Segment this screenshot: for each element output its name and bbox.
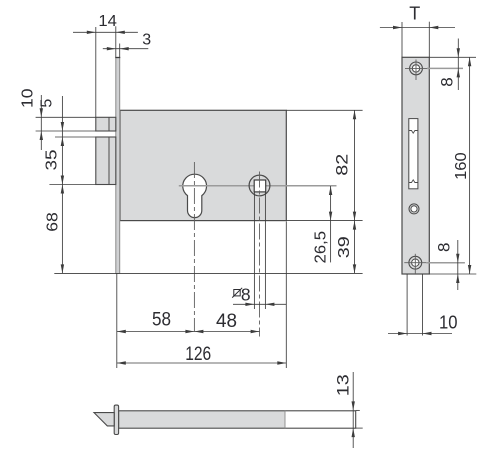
mounting tab upper [96, 117, 116, 131]
spindle square hole [254, 180, 266, 192]
plate top edge extension [429, 56, 476, 58]
svg-text:14: 14 [98, 13, 117, 30]
svg-text:58: 58 [152, 310, 171, 331]
extension line for 14 left [95, 27, 97, 117]
slot break line bottom [409, 180, 418, 183]
bottom dimension 126 [117, 362, 286, 364]
faceplate tab (side) [114, 405, 118, 434]
case width extension lines below plate [406, 274, 408, 336]
svg-text:39: 39 [336, 236, 353, 258]
top screw hole [410, 62, 423, 75]
faceplate plate [402, 57, 429, 274]
svg-text:126: 126 [185, 343, 211, 365]
bottom left extension line [116, 274, 118, 369]
holes horizontal centerline (grey) [179, 185, 337, 187]
svg-text:10: 10 [439, 311, 458, 332]
mounting tab lower [96, 137, 116, 185]
extension line for 3 right [119, 44, 121, 58]
square hole side extension lines [253, 192, 255, 309]
top hole centerline extension (grey) [427, 67, 463, 69]
svg-text:13: 13 [333, 374, 352, 396]
svg-text:8: 8 [241, 285, 251, 305]
dimension 8 top [457, 39, 459, 91]
bar extension lines right [356, 409, 360, 411]
svg-text:10: 10 [19, 88, 36, 108]
dimension 13 [352, 372, 354, 448]
long extension line at faceplate bottom [54, 272, 362, 274]
euro cylinder keyhole [183, 174, 207, 217]
dimension 10 (left) [40, 95, 42, 150]
latch slot [409, 119, 418, 189]
dimension 82 / 39 line [354, 110, 356, 273]
latch bolt (side, beveled) [94, 413, 114, 426]
cylinder vertical centerline [193, 162, 195, 332]
svg-text:82: 82 [334, 154, 352, 176]
bottom right extension line [285, 222, 287, 369]
bottom screw hole [409, 256, 422, 269]
svg-text:26,5: 26,5 [313, 231, 330, 264]
dimension 5 / 35 / 68 line [61, 96, 63, 273]
svg-text:3: 3 [142, 32, 151, 49]
case bar grey section [119, 411, 285, 428]
dimension square-8 [233, 303, 286, 305]
tab inner edge line [108, 117, 110, 131]
spindle hole circle [249, 175, 270, 196]
plate bottom edge extension [429, 273, 476, 275]
svg-text:68: 68 [45, 212, 62, 232]
dimension 10 (right view) [388, 333, 452, 335]
svg-text:35: 35 [44, 149, 61, 170]
dimension T [380, 27, 455, 29]
dimension 160 [469, 57, 471, 274]
dimension 26,5 [330, 186, 332, 262]
case bar outline [119, 411, 356, 428]
lock body (front view case) [120, 110, 286, 220]
right extension lines for 82 / 39 [286, 109, 362, 111]
faceplate top edge tick [115, 57, 120, 59]
bottom hole centerline extension (grey) [426, 262, 465, 264]
grey/white divide [284, 411, 286, 428]
spindle vertical centerline [259, 172, 261, 337]
svg-text:160: 160 [453, 152, 470, 180]
plate extension lines up [401, 22, 403, 57]
svg-text:5: 5 [39, 99, 56, 108]
dimension 8 bottom [457, 240, 459, 290]
bottom dimension line 58 / 48 [117, 331, 260, 333]
svg-text:T: T [409, 4, 420, 24]
slot break line top [409, 131, 418, 134]
svg-text:8: 8 [437, 77, 456, 86]
extension line for 14 right / faceplate left edge extended [115, 26, 117, 57]
dimension 14 [73, 31, 138, 33]
faceplate strip (front view, edge-on) [116, 58, 120, 274]
svg-text:8: 8 [435, 242, 454, 251]
left extension lines A B C D [36, 116, 96, 118]
svg-text:48: 48 [216, 311, 237, 332]
dimension 3 [103, 48, 149, 50]
small hole below slot [409, 204, 419, 214]
